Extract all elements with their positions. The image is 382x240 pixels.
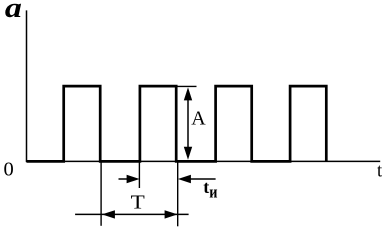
amplitude arrow A (double-headed vertical) (184, 87, 192, 159)
svg-text:a: a (5, 0, 22, 23)
svg-text:t: t (377, 162, 382, 182)
extension line at pulse2 right edge (177, 161, 179, 226)
vertical axis (26, 10, 28, 161)
extension line at pulse1 right edge (100, 161, 102, 225)
svg-text:T: T (131, 191, 145, 213)
svg-text:и: и (209, 183, 217, 201)
extension line at pulse2 left edge (138, 161, 140, 188)
t_i dimension left arrow (points right) (119, 175, 140, 183)
svg-text:t: t (203, 177, 209, 197)
svg-text:A: A (191, 108, 206, 130)
svg-text:0: 0 (4, 159, 14, 181)
top extension line at amplitude level (178, 85, 197, 87)
t_i dimension right arrow (points left) (178, 175, 216, 183)
pulse waveform (4 rectangular pulses) (27, 86, 327, 161)
horizontal axis (t axis) (26, 160, 380, 162)
T dimension line with outward arrows (75, 210, 189, 218)
